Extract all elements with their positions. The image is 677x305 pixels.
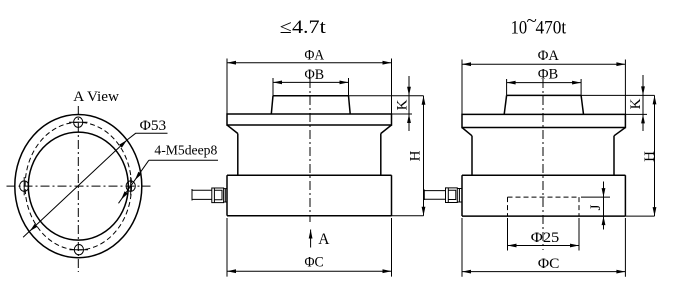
arrow phi25 right <box>570 244 579 248</box>
hidden recess right side (dashed) <box>578 197 580 216</box>
cable end cap <box>423 190 425 201</box>
cap top extension line <box>581 94 654 96</box>
arrow phiC left <box>227 269 236 273</box>
cable gland <box>212 188 224 203</box>
bolt hole right <box>126 177 135 195</box>
base left side <box>226 175 228 216</box>
centerline <box>542 79 544 250</box>
arrow J bottom <box>602 216 606 225</box>
phi25 extension lines <box>508 218 580 251</box>
arrow leader at hole edge <box>135 172 142 181</box>
base top edge <box>227 174 392 176</box>
arrow H top <box>422 96 426 105</box>
svg-text:A: A <box>318 231 330 248</box>
hidden recess left side (dashed) <box>507 197 509 216</box>
cap top edge <box>273 95 349 97</box>
arrow phiA right <box>616 62 625 66</box>
cap left side <box>504 95 506 114</box>
arrow K bottom <box>641 114 645 123</box>
base right side <box>624 175 626 216</box>
neck slant left <box>462 128 472 136</box>
base bottom edge <box>462 215 625 217</box>
svg-text:≤4.7t: ≤4.7t <box>280 17 327 38</box>
cable body <box>424 191 445 200</box>
K bottom extension (flange top extended) <box>625 113 647 115</box>
K bottom extension (flange top extended) <box>392 113 413 115</box>
arrow phiB left <box>507 81 516 85</box>
svg-text:ΦA: ΦA <box>305 48 325 64</box>
J top extension <box>581 196 610 198</box>
svg-text:K: K <box>628 98 644 109</box>
outer circle <box>15 115 142 258</box>
arrow phiC left <box>462 270 471 274</box>
bottom edge extension to H dim <box>625 215 654 217</box>
svg-text:J: J <box>588 204 604 210</box>
arrow phiB left <box>273 81 282 85</box>
bolt circle (dashed) <box>25 122 131 250</box>
section arrow A head <box>309 230 313 239</box>
bolt hole left <box>20 177 29 195</box>
arrow phiA left <box>227 61 236 65</box>
leader 4-M5 <box>119 160 219 203</box>
phiA dimension line <box>462 63 625 65</box>
phiA dimension line <box>227 62 392 64</box>
H dimension line <box>423 96 425 216</box>
svg-text:Φ53: Φ53 <box>140 118 167 134</box>
section arrow A line <box>310 230 312 248</box>
phiB extension lines <box>507 79 581 95</box>
arrow H bottom <box>422 207 426 216</box>
arrow phi25 left <box>508 244 517 248</box>
arrow K top <box>407 87 411 96</box>
svg-text:ΦA: ΦA <box>538 48 559 64</box>
svg-text:470t: 470t <box>536 18 567 39</box>
svg-text:A View: A View <box>73 89 119 105</box>
phiC extension lines <box>462 218 625 277</box>
cable body <box>192 190 212 199</box>
hidden recess top (dashed) <box>508 196 580 198</box>
arrow phiA left <box>462 62 471 66</box>
phiC dimension line <box>462 271 625 273</box>
inner circle <box>28 132 128 240</box>
body right side <box>613 136 615 175</box>
svg-text:Φ25: Φ25 <box>531 230 560 246</box>
base left side <box>461 175 463 216</box>
cap left side <box>271 96 273 114</box>
arrow phiC right <box>383 269 392 273</box>
K dimension line <box>642 75 644 131</box>
phiA extension lines <box>462 60 625 115</box>
cable gland <box>446 188 458 203</box>
arrow K bottom <box>407 114 411 123</box>
arrow K top <box>641 86 645 95</box>
horizontal centerline <box>7 185 151 187</box>
body left side <box>237 134 239 176</box>
phiB extension lines <box>273 78 349 96</box>
svg-text:10: 10 <box>511 18 527 39</box>
cap right side <box>349 96 351 114</box>
svg-text:4-M5deep8: 4-M5deep8 <box>154 144 217 159</box>
base top edge <box>462 174 625 176</box>
gland collar <box>457 189 462 203</box>
bolt hole top <box>69 117 88 127</box>
arrow H bottom <box>653 207 657 216</box>
cap right side <box>581 95 583 114</box>
cable end cap <box>191 189 193 201</box>
cap top extension line <box>349 95 424 97</box>
phi25 dimension line <box>508 245 580 247</box>
gland collar <box>224 189 227 202</box>
body right side <box>380 134 382 176</box>
body left side <box>471 136 473 175</box>
arrow phiC right <box>616 270 625 274</box>
phiC dimension line <box>227 270 392 272</box>
phiA extension lines <box>227 59 392 114</box>
bottom edge extension to H dim <box>392 215 424 217</box>
svg-text:ΦB: ΦB <box>538 66 558 82</box>
svg-text:H: H <box>408 150 424 161</box>
dimension line phi53 diagonal <box>23 133 167 237</box>
J dimension line <box>603 182 605 230</box>
arrow phiB right <box>572 81 581 85</box>
K dimension line <box>408 76 410 131</box>
arrow phi53 lower-left <box>30 224 38 232</box>
svg-text:ΦC: ΦC <box>538 256 560 272</box>
flange <box>462 114 625 127</box>
phiC extension lines <box>227 218 392 277</box>
svg-text:ΦC: ΦC <box>305 254 324 270</box>
centerline <box>309 79 311 222</box>
base bottom edge <box>227 215 392 217</box>
arrow phiA right <box>383 61 392 65</box>
arrow phi53 upper-right <box>119 140 127 148</box>
neck slant right <box>614 128 625 136</box>
flange <box>227 114 392 125</box>
arrow H top <box>653 95 657 104</box>
arrow phiB right <box>340 81 349 85</box>
vertical centerline <box>77 106 79 272</box>
bolt hole bottom <box>70 245 89 255</box>
svg-text:K: K <box>395 99 411 110</box>
arrow leader end <box>121 191 128 200</box>
H dimension line <box>654 95 656 216</box>
phiB dimension line <box>273 81 349 83</box>
svg-text:ΦB: ΦB <box>305 67 325 83</box>
arrow J top <box>602 188 606 197</box>
neck slant right <box>381 125 392 134</box>
base right side <box>391 175 393 216</box>
phiB dimension line <box>507 82 581 84</box>
svg-text:H: H <box>642 151 658 162</box>
neck slant left <box>227 125 238 134</box>
cap top edge <box>507 94 581 96</box>
